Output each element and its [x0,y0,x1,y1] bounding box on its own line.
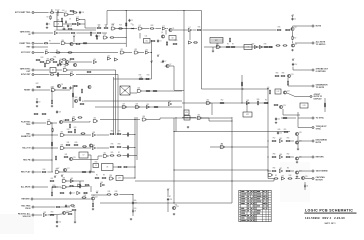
transistor Q2 [161,35,164,38]
transistor Q8 [57,84,63,88]
svg-text:R43: R43 [147,75,150,77]
node J20 [231,146,232,147]
wire [122,147,135,149]
svg-text:R52: R52 [221,100,224,102]
transistor Q7 [166,64,172,68]
IC U6 [102,164,114,171]
connector P28 CAPSTAN [312,176,325,181]
wire [58,32,70,34]
svg-text:Q21: Q21 [299,170,302,172]
svg-text:EXT START TRIG: EXT START TRIG [15,11,31,14]
IC U21 [184,116,190,121]
svg-text:C3: C3 [159,41,161,43]
svg-text:C16: C16 [58,222,61,224]
node J5 [126,28,127,29]
svg-text:Q6: Q6 [69,60,71,62]
node J4 [242,88,243,89]
svg-text:U8: U8 [55,30,57,32]
wire [297,125,299,128]
resistor R36 [53,61,58,62]
svg-text:U24: U24 [70,71,73,73]
svg-text:R55: R55 [284,129,287,131]
wire [287,78,289,81]
resistor R78 [66,144,71,145]
resistor R113 [102,177,107,178]
wire [49,42,60,44]
resistor R98 [79,184,80,189]
resistor R38 [50,74,55,75]
wire [76,74,118,76]
svg-text:R31: R31 [67,142,70,144]
transistor Q1 [169,28,175,32]
resistor R73 [74,129,75,134]
node J30 [295,178,296,179]
gate U42 [55,169,59,174]
svg-text:U45: U45 [279,138,282,140]
buffer U49 [70,178,73,183]
svg-text:U46: U46 [279,154,282,156]
ground [291,49,293,51]
resistor R93 [272,156,277,157]
resistor R95 [272,170,277,171]
svg-text:R6: R6 [221,144,223,146]
ground [212,50,214,52]
wire [68,69,116,71]
svg-text:C22: C22 [59,65,62,67]
resistor R39 [57,72,58,77]
capacitor C15 [65,204,70,207]
wire [287,85,289,86]
resistor R84 [64,156,69,157]
wire [116,28,137,30]
svg-text:R21: R21 [54,57,57,59]
connector P8 RESET [24,89,34,92]
diode D4 [304,184,308,188]
svg-text:U2: U2 [52,70,54,72]
resistor R122 [73,12,78,13]
svg-text:R84: R84 [51,212,54,214]
svg-text:ALL MUTE: ALL MUTE [21,186,31,189]
resistor R72 [68,131,73,132]
ground [296,176,298,178]
connector P21 GENERATOR [312,84,328,89]
wire [283,114,300,116]
diode D2 [131,28,135,30]
power +5V [157,54,160,57]
svg-text:MOTOR: MOTOR [316,179,324,181]
resistor R104 [83,192,88,193]
resistor R103 [60,192,65,193]
wire [66,211,72,213]
svg-text:U27: U27 [122,104,125,106]
connector P6 TAPE SYNC [20,68,34,73]
wire [35,32,54,34]
gate U50 [62,186,66,189]
gate U9 [103,34,107,39]
wire [35,206,56,208]
transistor Q21 [295,170,301,174]
resistor R37 [70,58,75,59]
buffer U14 [145,49,148,54]
wire [79,181,81,184]
buffer U58 [77,22,80,25]
resistor R9 [151,40,156,41]
resistor R126 [44,63,45,68]
svg-text:R85: R85 [111,152,114,154]
resistor R1 [50,10,55,13]
svg-text:R52: R52 [273,138,276,140]
transistor Q13 [279,105,285,109]
wire [35,69,50,71]
wire [273,179,275,182]
svg-text:R70: R70 [118,131,121,133]
wire [56,215,58,220]
svg-text:R26: R26 [278,27,281,29]
capacitor C4 [291,17,296,20]
svg-text:R9: R9 [103,175,105,177]
svg-text:C4: C4 [294,19,296,21]
capacitor C14 [69,191,74,194]
wire [324,98,326,112]
wire [135,180,274,182]
IC U10 [244,45,252,50]
power +5V [54,175,57,178]
buffer U38 [92,132,95,137]
wire [182,117,196,119]
wire [35,134,59,136]
svg-text:MUTE: MUTE [316,142,322,144]
wire [73,38,75,43]
buffer U8 [54,30,57,35]
wire [292,41,294,43]
resistor R117 [288,178,293,179]
resistor R82 [127,145,128,150]
resistor R120 [34,113,39,114]
ground [51,105,53,107]
svg-text:Q4: Q4 [295,43,297,45]
capacitor C19 [56,110,61,113]
svg-text:PB IN: PB IN [25,208,31,210]
wire [76,32,96,34]
svg-text:R21: R21 [175,205,178,207]
svg-text:+5V: +5V [267,87,270,89]
resistor R17 [292,36,297,41]
resistor R61 [281,75,286,76]
svg-text:C6: C6 [62,64,64,66]
wire [125,11,127,31]
svg-text:Q12: Q12 [287,90,290,92]
ground [46,27,48,29]
svg-text:MUTE: MUTE [316,26,322,28]
svg-text:+5V: +5V [61,174,64,176]
svg-text:SYNC RET: SYNC RET [21,74,31,76]
wire [173,66,175,90]
wire [292,31,294,36]
transistor Q11 [287,74,293,78]
resistor R22 [90,31,91,36]
resistor R99 [52,185,57,188]
svg-text:U38: U38 [92,132,95,134]
resistor R109 [50,214,55,215]
connector P12 REC PB [23,159,34,162]
resistor R2 [50,15,51,20]
wire [212,47,214,50]
wire [155,28,161,30]
resistor R50 [80,103,85,104]
connector P17 PB SYNC ALL [18,213,34,218]
wire [36,98,38,100]
resistor R8 [118,28,123,29]
svg-text:C7: C7 [164,61,166,63]
wire [113,77,115,135]
power +5V [267,87,270,90]
power +5V [96,191,99,194]
wire [122,155,137,157]
transistor Q22 [91,196,97,200]
power +5V [73,35,76,38]
wire [100,202,232,204]
gate U1 [64,11,68,16]
svg-text:R17: R17 [294,38,297,40]
gate U43 [197,115,201,120]
wire [201,11,203,90]
svg-text:U39: U39 [60,145,63,147]
svg-text:U41: U41 [103,153,106,155]
transistor Q20 [295,156,301,160]
resistor R41 [87,71,92,72]
title underline [304,212,356,214]
wire [167,202,169,213]
wire [56,186,61,188]
transistor Q9 [88,85,91,88]
wire [189,30,191,40]
gate U36 [142,116,146,121]
node J28 [173,202,174,203]
svg-text:U5: U5 [163,25,165,27]
wire [35,122,47,124]
svg-text:U11: U11 [145,36,148,38]
wire [232,146,268,148]
resistor R52 [146,90,151,91]
wire [113,166,117,168]
gate U41 [103,153,107,158]
resistor R80 [110,146,115,147]
svg-text:R23: R23 [74,127,77,129]
wire [295,42,312,44]
connector P19 ALL MUTE [312,41,326,46]
buffer U30 [168,101,171,106]
capacitor C22 [57,63,62,66]
node J24 [56,186,57,187]
transistor Q16 [69,157,75,161]
node J16 [134,147,135,148]
svg-text:TACH SENSE: TACH SENSE [316,170,329,173]
power +5V [57,10,60,13]
svg-text:Q1: Q1 [172,28,174,30]
wire [85,27,96,29]
resistor R124 [72,23,77,24]
wire [72,85,74,108]
wire [297,136,299,148]
resistor R47 [81,89,82,94]
gate U13 [134,49,138,54]
svg-text:O RETURN: O RETURN [316,71,327,73]
wire [117,75,119,136]
wire [51,123,53,172]
connector P24 TORQUE ST [312,126,328,130]
wire [63,23,72,25]
wire [142,90,182,92]
svg-text:REC PLAY: REC PLAY [21,171,31,174]
capacitor C18 [167,198,172,201]
wire [167,191,169,197]
svg-text:R23: R23 [175,40,178,42]
buffer U32 [246,100,249,105]
svg-text:Q8: Q8 [61,84,63,86]
svg-text:U23: U23 [63,67,66,69]
connector P7 SYNC RET [21,73,34,76]
svg-text:R2: R2 [227,44,229,46]
svg-text:R53: R53 [165,66,168,68]
svg-text:TO SYNC: TO SYNC [316,118,325,120]
wire [35,214,43,216]
resistor R26 [76,43,81,44]
svg-text:Y1: Y1 [95,165,97,167]
wire [66,186,90,187]
resistor R49 [72,93,73,98]
svg-text:Q20: Q20 [299,156,302,158]
svg-text:INHIBIT IN: INHIBIT IN [21,136,31,138]
ground [130,218,132,220]
wire [74,211,76,221]
resistor R45 [62,87,67,88]
resistor R44 [36,86,41,87]
node J11 [51,122,52,123]
capacitor C9 [36,100,41,103]
svg-text:C20: C20 [81,12,84,14]
wire [143,28,149,30]
resistor R89 [283,117,288,118]
wire [100,119,140,121]
wire [149,52,151,54]
wire [139,52,144,54]
svg-text:D3: D3 [134,211,136,213]
wire [128,166,135,168]
wire [305,178,312,180]
wire [107,10,202,12]
ground [92,208,94,210]
resistor R86 [117,155,122,156]
wire [125,30,127,47]
svg-text:R1: R1 [51,10,53,12]
svg-text:R50: R50 [51,87,54,89]
wire [35,12,49,14]
resistor R5 [97,26,102,29]
resistor R123 [61,18,62,23]
resistor R87 [127,153,128,158]
resistor R16 [286,29,291,30]
resistor R42 [139,77,144,80]
gate U31 [206,100,210,105]
IC U5 [120,86,130,95]
resistor R96 [286,170,291,171]
svg-text:U48: U48 [62,178,65,180]
svg-text:C2: C2 [131,20,133,22]
wire [165,30,167,35]
svg-text:C5: C5 [98,36,100,38]
svg-text:R6: R6 [265,100,267,102]
wire [268,178,274,180]
svg-text:U13: U13 [134,49,137,51]
gate U48 [62,178,66,183]
svg-text:C13: C13 [279,133,282,135]
wire [211,103,213,115]
node J31 [173,169,174,170]
svg-text:U43: U43 [197,115,200,117]
svg-text:U12: U12 [120,49,123,51]
ground [296,161,298,163]
wire [202,118,232,121]
node J6 [285,29,286,30]
svg-text:TRIG: TRIG [26,124,31,126]
svg-text:U57: U57 [281,175,284,177]
wire [35,159,53,161]
node J26 [132,194,133,195]
wire [67,180,84,182]
resistor R94 [286,156,291,157]
svg-text:EXT STOP: EXT STOP [21,52,31,54]
connector P11 TALLY IN [22,147,34,150]
wire [299,170,312,172]
wire [132,195,134,217]
wire [287,93,295,97]
svg-text:U22: U22 [246,114,249,116]
svg-text:U6: U6 [106,167,108,169]
wire [182,102,268,104]
resistor R40 [64,64,69,65]
resistor R29 [68,52,73,53]
gate U23 [63,67,67,72]
resistor R59 [269,90,270,95]
transistor Q3 [291,27,297,31]
gate U15 [216,44,220,49]
svg-text:SYNC: SYNC [316,128,322,130]
svg-text:Q22: Q22 [95,196,98,198]
svg-text:R2: R2 [118,152,120,154]
connector P22 4 DIGIT [310,93,323,100]
wire [47,214,62,215]
wire [56,89,70,91]
connector P23 TO SYNC [312,117,325,120]
transistor Q25 [301,176,307,180]
gate U26 [137,88,141,93]
wire [106,11,108,26]
wire [174,131,290,133]
wire [63,121,90,122]
svg-text:R2: R2 [47,17,49,19]
svg-text:R82: R82 [273,168,276,170]
capacitor C8 [69,86,74,89]
IC RP1 [210,38,223,44]
wire [35,46,49,48]
resistor R66 [69,124,70,129]
node J23 [267,156,268,157]
svg-text:R35: R35 [139,75,142,77]
gate U44 [220,144,224,149]
transistor Q5 [70,42,73,45]
resistor R110 [72,209,77,210]
node J9 [241,102,242,103]
